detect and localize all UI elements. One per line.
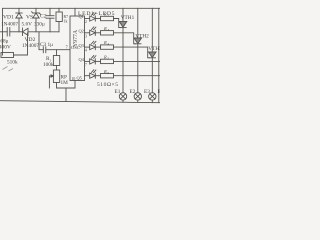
svg-text:Q2: Q2 [79, 29, 84, 34]
lamp E3 [149, 93, 156, 103]
resistor R5 [95, 59, 160, 63]
lamp E1 [119, 93, 126, 102]
svg-text:2: 2 [85, 20, 87, 24]
svg-text:1N4007: 1N4007 [22, 43, 39, 49]
svg-text:4: 4 [85, 49, 87, 53]
wire RP bottom to IC VSS [57, 81, 76, 89]
svg-text:E2: E2 [130, 89, 136, 95]
scan smudge marks [3, 67, 14, 72]
svg-text:VD1: VD1 [3, 15, 14, 21]
lamp E2 [134, 93, 141, 103]
capacitor C2 [49, 8, 51, 15]
svg-text:Q5: Q5 [77, 76, 83, 81]
thyristor VTH1 [119, 8, 127, 92]
svg-text:510Ω×5: 510Ω×5 [97, 82, 119, 88]
thyristor VTH3 [149, 8, 157, 92]
svg-text:E: E [158, 89, 161, 95]
wire VSS drop to bottom bus [65, 88, 67, 101]
svg-text:5.6V: 5.6V [22, 22, 33, 28]
resistor R4 [95, 45, 149, 58]
thyristor VTH2 [134, 8, 142, 92]
LED5 row5 [85, 70, 96, 79]
wire IC VDD pin to top bus [74, 8, 76, 16]
diode VD2 [22, 28, 24, 36]
IC U1 box [70, 16, 85, 81]
svg-text:R: R [103, 12, 107, 17]
LED rows: LED + resistor per output [85, 13, 161, 79]
resistor R8 510k [1, 53, 14, 58]
svg-text:10: 10 [72, 77, 76, 81]
wire R1 to RP [56, 66, 58, 71]
wire C1 to VD2 [10, 31, 23, 33]
LED4 row4 [85, 56, 96, 65]
wire bottom bus [0, 101, 160, 103]
svg-text:1N4007: 1N4007 [1, 22, 18, 28]
svg-text:Q3: Q3 [79, 43, 85, 48]
svg-text:400V: 400V [0, 45, 11, 51]
potentiometer RP [53, 70, 59, 83]
resistor R6 [95, 74, 160, 78]
svg-text:C3 1μ: C3 1μ [40, 42, 53, 48]
diode VD1 [18, 8, 20, 13]
wire right edge column [158, 8, 160, 102]
svg-text:R7: R7 [64, 15, 69, 19]
resistor R2 [95, 16, 120, 27]
svg-text:1M: 1M [61, 80, 69, 86]
resistor R7 [58, 8, 60, 12]
svg-text:R: R [103, 26, 107, 31]
wire 510k to VD2 anode [14, 33, 28, 55]
svg-text:1k: 1k [64, 20, 68, 24]
svg-text:VTH3: VTH3 [148, 46, 160, 52]
wire node to R1 [56, 50, 58, 56]
svg-text:7: 7 [85, 63, 87, 67]
svg-text:3: 3 [85, 34, 87, 38]
labels [0, 11, 162, 95]
zener VS [35, 8, 37, 13]
resistor R1 [53, 56, 59, 66]
LED2 row2 [85, 27, 96, 36]
svg-text:E1: E1 [115, 89, 121, 95]
resistor R3 [95, 31, 135, 44]
wire top bus [3, 8, 161, 31]
wire VD2 to R7 riser [28, 31, 59, 33]
svg-text:330μ: 330μ [34, 22, 45, 28]
wire C3 to OSC pin7 [46, 49, 70, 51]
svg-text:R: R [103, 69, 107, 74]
svg-text:VS: VS [26, 15, 33, 21]
svg-text:VTH2: VTH2 [135, 33, 149, 39]
svg-text:E3: E3 [144, 89, 150, 95]
wire left vertical to 510k [2, 32, 4, 56]
capacitor C1 plates [0, 31, 7, 33]
svg-text:510k: 510k [7, 60, 18, 66]
svg-text:VTH1: VTH1 [121, 15, 135, 21]
svg-text:100k: 100k [43, 62, 54, 68]
svg-text:Q4: Q4 [79, 57, 85, 62]
svg-text:R: R [103, 55, 107, 60]
svg-text:Q1: Q1 [79, 14, 84, 19]
svg-text:R: R [103, 40, 107, 45]
svg-text:C2: C2 [40, 14, 47, 20]
capacitor C3 [39, 32, 43, 50]
LED1 row1 [85, 13, 96, 22]
LED3 row3 [85, 41, 96, 50]
thyristor columns [119, 8, 159, 102]
